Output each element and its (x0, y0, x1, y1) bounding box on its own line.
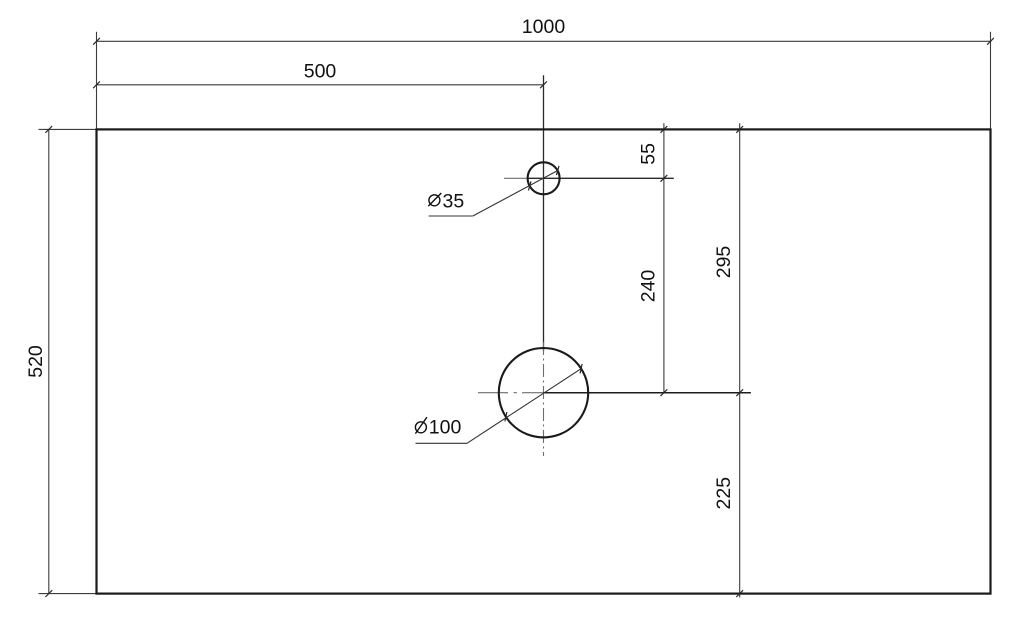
svg-text:295: 295 (713, 246, 735, 279)
svg-text:225: 225 (713, 477, 735, 510)
svg-text:100: 100 (429, 417, 462, 439)
svg-text:55: 55 (638, 143, 660, 165)
svg-text:1000: 1000 (522, 16, 566, 38)
svg-text:35: 35 (443, 190, 465, 212)
svg-text:520: 520 (25, 345, 47, 378)
svg-text:240: 240 (638, 270, 660, 303)
svg-text:500: 500 (304, 60, 337, 82)
